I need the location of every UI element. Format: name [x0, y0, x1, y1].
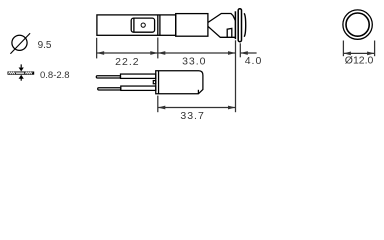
svg-text:22.2: 22.2	[115, 56, 139, 68]
svg-text:33.0: 33.0	[182, 56, 206, 68]
svg-text:Ø12.0: Ø12.0	[345, 55, 374, 67]
svg-text:33.7: 33.7	[180, 110, 204, 122]
svg-text:9.5: 9.5	[38, 40, 52, 51]
svg-text:4.0: 4.0	[245, 55, 263, 67]
svg-text:0.8-2.8: 0.8-2.8	[40, 70, 70, 81]
